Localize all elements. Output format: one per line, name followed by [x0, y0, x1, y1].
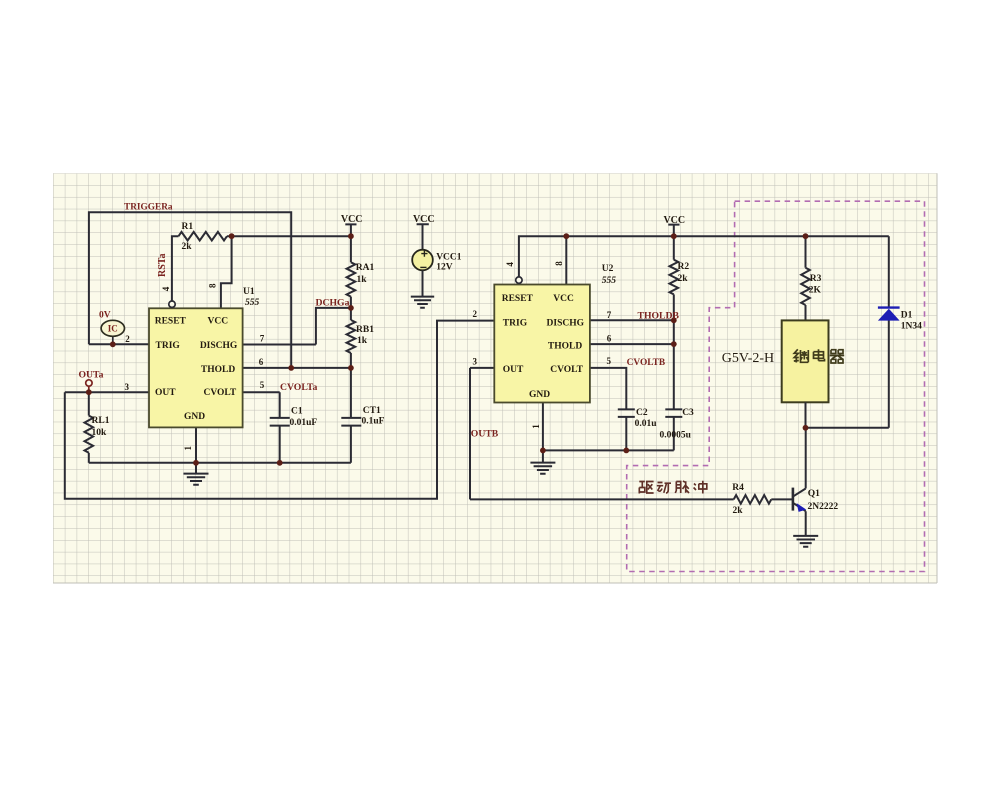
svg-text:7: 7	[607, 310, 612, 320]
svg-text:THOLD: THOLD	[201, 365, 235, 375]
svg-text:555: 555	[245, 298, 260, 308]
svg-text:2: 2	[473, 309, 478, 319]
svg-text:VCC: VCC	[341, 214, 363, 225]
svg-text:Q1: Q1	[808, 489, 820, 499]
svg-text:G5V-2-H: G5V-2-H	[722, 351, 774, 366]
svg-text:R4: R4	[732, 483, 744, 493]
svg-text:CVOLTB: CVOLTB	[627, 358, 666, 368]
svg-text:1: 1	[183, 446, 193, 451]
svg-text:C2: C2	[636, 408, 648, 418]
svg-text:3: 3	[125, 382, 130, 392]
svg-text:DISCHG: DISCHG	[200, 341, 238, 351]
svg-text:DISCHG: DISCHG	[547, 318, 585, 328]
svg-text:VCC: VCC	[553, 294, 574, 304]
svg-text:C1: C1	[291, 406, 303, 416]
svg-text:RB1: RB1	[356, 325, 374, 335]
svg-text:GND: GND	[184, 412, 205, 422]
svg-text:6: 6	[607, 334, 612, 344]
svg-text:VCC: VCC	[663, 215, 685, 226]
svg-text:0.01u: 0.01u	[635, 419, 658, 429]
svg-text:IC: IC	[108, 324, 118, 334]
svg-text:OUTB: OUTB	[471, 429, 499, 440]
svg-text:TRIG: TRIG	[503, 318, 528, 328]
svg-text:4: 4	[161, 286, 171, 291]
svg-text:3: 3	[473, 356, 478, 366]
svg-text:0.1uF: 0.1uF	[362, 417, 385, 427]
svg-text:555: 555	[602, 276, 617, 286]
svg-text:R3: R3	[810, 274, 822, 284]
svg-text:7: 7	[260, 333, 265, 343]
svg-text:1k: 1k	[357, 275, 368, 285]
svg-text:4: 4	[505, 262, 515, 267]
svg-text:DCHGa: DCHGa	[316, 298, 350, 309]
svg-text:2N2222: 2N2222	[808, 502, 839, 512]
svg-text:CT1: CT1	[363, 406, 381, 416]
svg-text:8: 8	[208, 283, 218, 288]
svg-text:12V: 12V	[436, 262, 453, 272]
svg-text:2k: 2k	[733, 506, 744, 516]
svg-text:U2: U2	[602, 264, 614, 274]
svg-text:TRIGGERa: TRIGGERa	[124, 203, 173, 213]
svg-text:GND: GND	[529, 390, 550, 400]
svg-text:0.0005u: 0.0005u	[660, 431, 692, 441]
svg-text:C3: C3	[682, 408, 694, 418]
svg-text:OUT: OUT	[155, 388, 176, 398]
svg-text:THOLD: THOLD	[548, 341, 582, 351]
svg-text:2k: 2k	[182, 242, 193, 252]
svg-text:0.01uF: 0.01uF	[290, 418, 318, 428]
svg-text:0V: 0V	[99, 310, 111, 320]
svg-text:R1: R1	[182, 222, 194, 232]
svg-text:1N34: 1N34	[901, 322, 922, 332]
svg-text:1k: 1k	[357, 336, 368, 346]
svg-text:RESET: RESET	[155, 317, 187, 327]
svg-text:2K: 2K	[809, 286, 822, 296]
svg-text:RA1: RA1	[356, 263, 375, 273]
svg-text:OUTa: OUTa	[79, 370, 104, 381]
svg-text:8: 8	[554, 261, 564, 266]
svg-text:5: 5	[607, 356, 612, 366]
svg-text:CVOLT: CVOLT	[203, 388, 236, 398]
svg-text:RSTa: RSTa	[157, 253, 168, 277]
svg-text:CVOLT: CVOLT	[550, 365, 583, 375]
svg-text:D1: D1	[901, 311, 913, 321]
svg-text:2: 2	[125, 334, 130, 344]
svg-text:2k: 2k	[678, 274, 689, 284]
svg-text:10k: 10k	[92, 428, 108, 438]
svg-text:OUT: OUT	[503, 365, 524, 375]
svg-text:CVOLTa: CVOLTa	[280, 382, 317, 393]
svg-text:5: 5	[260, 380, 265, 390]
svg-text:RESET: RESET	[502, 294, 534, 304]
svg-text:VCC: VCC	[413, 214, 435, 225]
svg-text:R2: R2	[678, 262, 690, 272]
svg-text:VCC: VCC	[208, 317, 229, 327]
svg-text:6: 6	[259, 357, 264, 367]
svg-text:U1: U1	[243, 287, 255, 297]
svg-text:RL1: RL1	[92, 416, 110, 426]
svg-text:TRIG: TRIG	[156, 341, 181, 351]
svg-text:1: 1	[531, 424, 541, 429]
svg-text:VCC1: VCC1	[436, 252, 462, 262]
svg-text:THOLDB: THOLDB	[638, 311, 680, 322]
